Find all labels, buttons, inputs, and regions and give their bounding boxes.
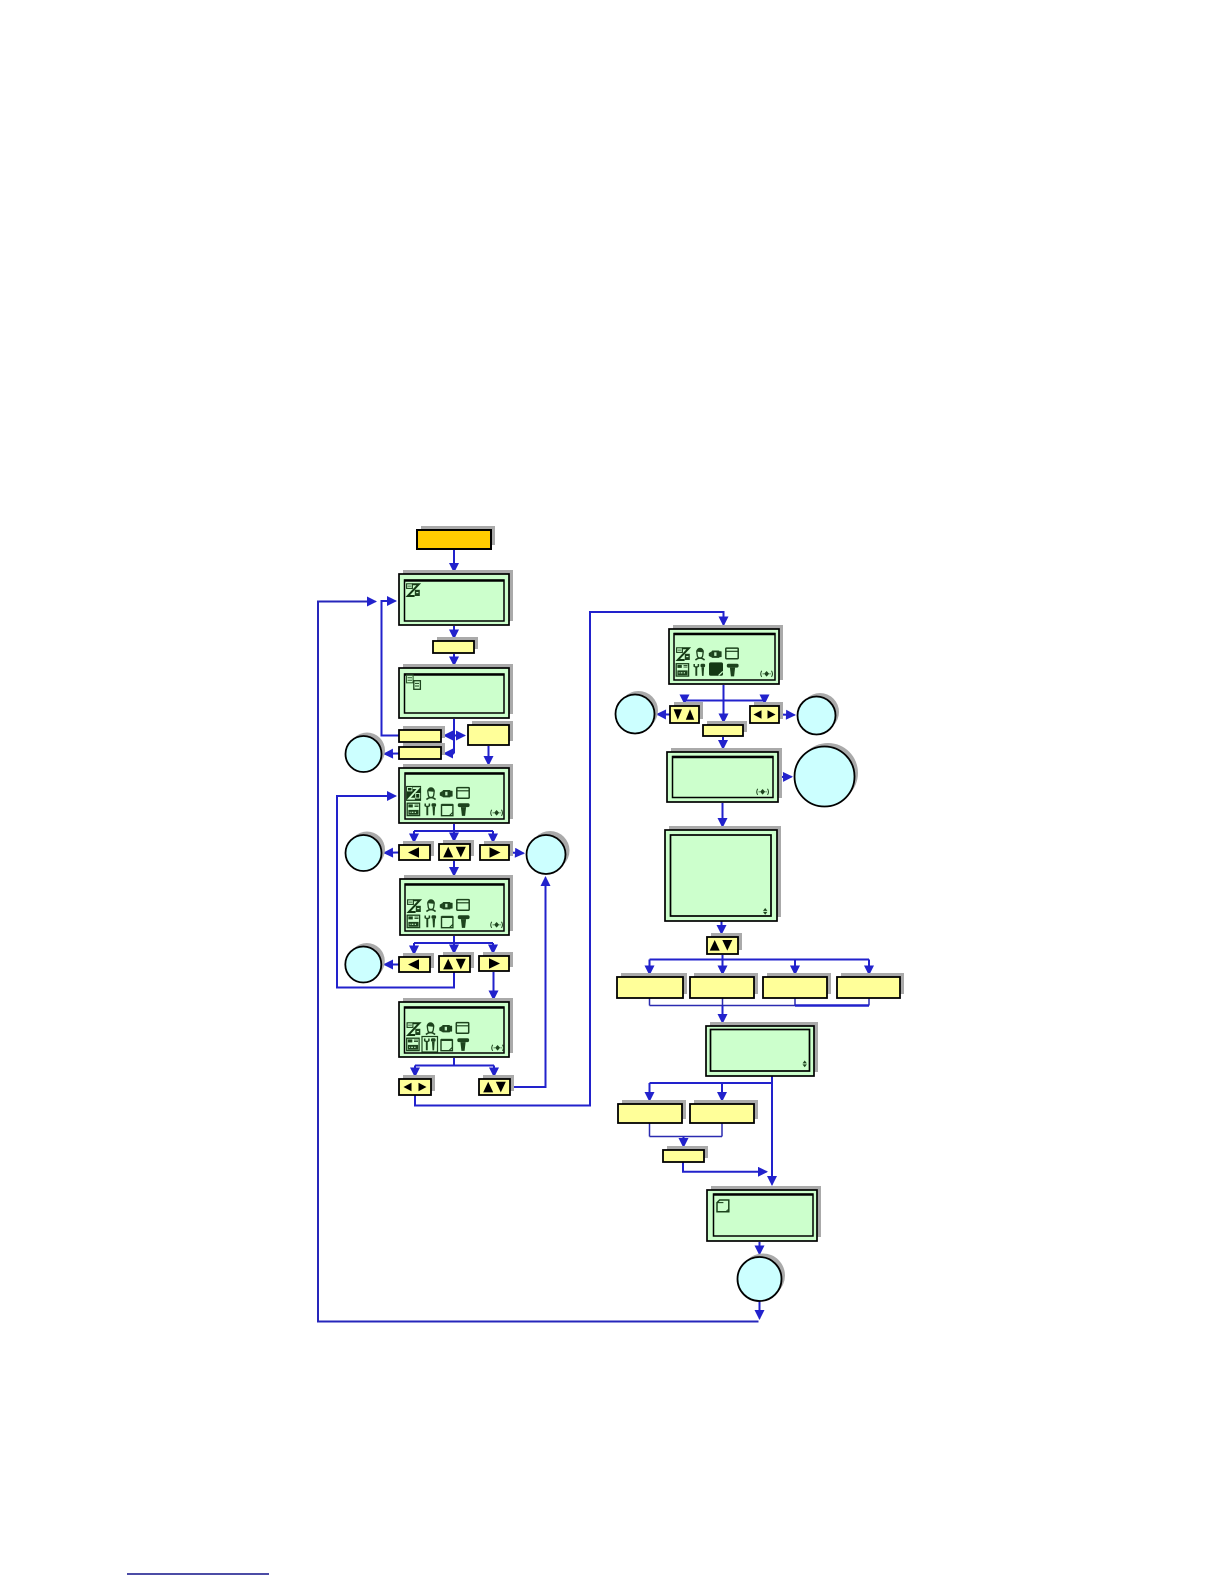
screen S1: [399, 570, 513, 625]
R key leftright (yellow): [750, 702, 783, 723]
wire: big return loop from bottom circle to screen S1: [318, 602, 760, 1322]
wire: screen S2 trunk down: [453, 719, 455, 754]
R key updown (yellow): [707, 933, 742, 954]
circle F: [798, 693, 840, 735]
screen R5: [707, 1186, 821, 1241]
screen S3: [399, 764, 513, 823]
big circle G: [795, 743, 859, 807]
wire: row1 right key to circle C: [510, 852, 524, 855]
wire: screen R1 split to keys: [685, 685, 765, 722]
bottom circle H: [738, 1254, 786, 1302]
wire: row2 right key to screen S5: [493, 972, 495, 999]
wire: four option boxes merge to screen R4: [650, 999, 870, 1023]
wire: trunk to key C: [445, 753, 455, 755]
screen S2: [399, 664, 513, 718]
wire: row1 updown key to screen S4: [453, 861, 455, 876]
R key box small (yellow): [703, 721, 747, 736]
wire: small key box to main line: [683, 1163, 767, 1172]
key box K1 (yellow): [433, 637, 478, 653]
wire: leftright key to circle F: [780, 714, 795, 717]
wire: key box to screen R2: [722, 737, 724, 749]
screen R1: [669, 625, 783, 684]
screen R2: [667, 748, 782, 802]
circle C: [527, 831, 570, 874]
option box 4 (yellow): [837, 973, 904, 998]
bottom key updown (yellow): [479, 1075, 514, 1095]
row2 key left (yellow): [399, 953, 434, 972]
wire: start box to screen S1: [453, 549, 455, 572]
option box 1 (yellow): [617, 973, 687, 998]
option box 3 (yellow): [763, 973, 831, 998]
wire: key B down to screen S3: [488, 746, 490, 765]
row1 key right (yellow): [480, 841, 513, 860]
wire: downup key to circle E: [658, 713, 670, 715]
wire: screen R4 main line down to screen R5: [771, 1076, 773, 1185]
wire: screen R2 to screen R3: [722, 803, 724, 827]
option box D (yellow): [618, 1100, 686, 1123]
wire: screen S4 split to row2 keys: [414, 936, 493, 954]
circle D: [345, 943, 385, 983]
wire: row2 left key to circle D: [385, 964, 399, 966]
wire: screen S3 split to row1 keys: [414, 824, 493, 842]
wire: screen S5 split to bottom keys: [415, 1058, 494, 1076]
bottom key leftright (yellow): [399, 1075, 435, 1095]
wire: row1 left key to circle B: [385, 852, 399, 854]
screen R3 (tall): [665, 826, 781, 921]
row2 key updown (yellow): [439, 952, 474, 972]
wire: key C to circle A: [385, 753, 399, 755]
wire: updown key split to four option boxes: [650, 955, 870, 974]
key box C (yellow): [399, 743, 445, 759]
wire: trunk to key B right: [454, 735, 465, 737]
screen S4: [400, 875, 513, 935]
wire: updown key up to circle C: [511, 878, 546, 1088]
wire: leftright key across to screen R1: [415, 612, 724, 1106]
circle A: [346, 733, 386, 773]
wire: screen R4 branch to two option boxes: [650, 1083, 773, 1101]
footnote rule: [127, 1573, 269, 1575]
start box (orange): [417, 526, 495, 549]
wire: key A return loop to screen S1: [382, 601, 400, 736]
wire: screen R3 to updown key: [721, 922, 723, 934]
option box E (yellow): [690, 1100, 758, 1123]
circle B: [346, 832, 386, 872]
key box F small (yellow): [663, 1146, 708, 1162]
wire: screen R2 to big circle G: [779, 776, 792, 778]
row1 key left (yellow): [399, 841, 434, 860]
screen R4: [706, 1022, 818, 1076]
circle E: [616, 691, 659, 734]
option box 2 (yellow): [690, 973, 758, 998]
key box A (yellow): [399, 726, 445, 742]
wire: screen S1 to key box K1: [453, 626, 455, 638]
row1 key updown (yellow): [439, 840, 474, 860]
wire: key box K1 to screen S2: [453, 654, 455, 665]
wire: screen R5 to bottom circle H: [759, 1242, 761, 1254]
wire: trunk to key A left: [445, 735, 455, 737]
wire: two option boxes merge to small key box: [650, 1124, 723, 1147]
screen S5: [399, 998, 513, 1057]
R key downup (yellow): [670, 702, 703, 723]
wire: row2 updown key loop back to screen S3: [337, 796, 454, 988]
key box B (yellow tall): [468, 721, 513, 745]
row2 key right (yellow): [479, 952, 513, 971]
